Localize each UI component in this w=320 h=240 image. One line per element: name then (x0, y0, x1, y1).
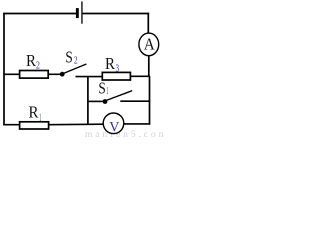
svg-text:V: V (109, 119, 119, 135)
svg-text:1: 1 (106, 86, 108, 97)
svg-text:manfen5.com: manfen5.com (85, 129, 163, 139)
wire R1 to voltmeter (49, 123, 104, 126)
top wire left segment (3, 13, 76, 15)
svg-text:2: 2 (74, 56, 78, 67)
switch S1 left contact junction dot (103, 99, 108, 104)
ammeter A body (139, 33, 159, 56)
top wire right segment (83, 13, 150, 15)
switch S1 blade (open) (106, 91, 132, 101)
svg-text:R: R (29, 103, 40, 122)
wire R2 to S2 dot (48, 73, 60, 75)
wire voltmeter to right rail (124, 123, 151, 125)
right rail lower segment (R3 node to S1 node to bottom corner) (149, 76, 151, 125)
left rail wire (3, 13, 5, 126)
svg-text:S: S (98, 79, 105, 98)
wire bottom left (left rail to R1) (3, 124, 20, 126)
wire middle branch left (left rail to R2) (3, 73, 20, 75)
voltmeter V body (103, 113, 124, 134)
resistor R1 body (20, 122, 49, 129)
right rail middle segment (ammeter to R3 node) (148, 56, 150, 77)
switch S2 left contact junction dot (60, 72, 65, 77)
battery BT1 positive plate (long thin bar) (81, 1, 82, 23)
wire vertical connector (middle branch down to bottom wire) (87, 76, 89, 125)
wire S1 branch left segment (88, 100, 103, 102)
svg-text:3: 3 (116, 63, 120, 75)
svg-text:R: R (105, 54, 116, 73)
svg-text:1: 1 (39, 110, 41, 124)
right rail upper segment (corner to ammeter) (147, 13, 149, 34)
svg-text:A: A (144, 35, 156, 54)
switch S2 blade (open) (64, 64, 87, 73)
svg-text:S: S (65, 48, 72, 67)
wire S1 to right rail (120, 100, 150, 102)
svg-text:2: 2 (36, 61, 40, 72)
resistor R2 body (20, 71, 49, 79)
battery BT1 negative plate (short thick bar) (76, 8, 79, 18)
wire R3 to right rail (130, 75, 150, 77)
wire middle branch right portion (S2 to R3) (76, 76, 103, 78)
svg-text:R: R (26, 51, 37, 70)
resistor R3 body (102, 72, 130, 80)
